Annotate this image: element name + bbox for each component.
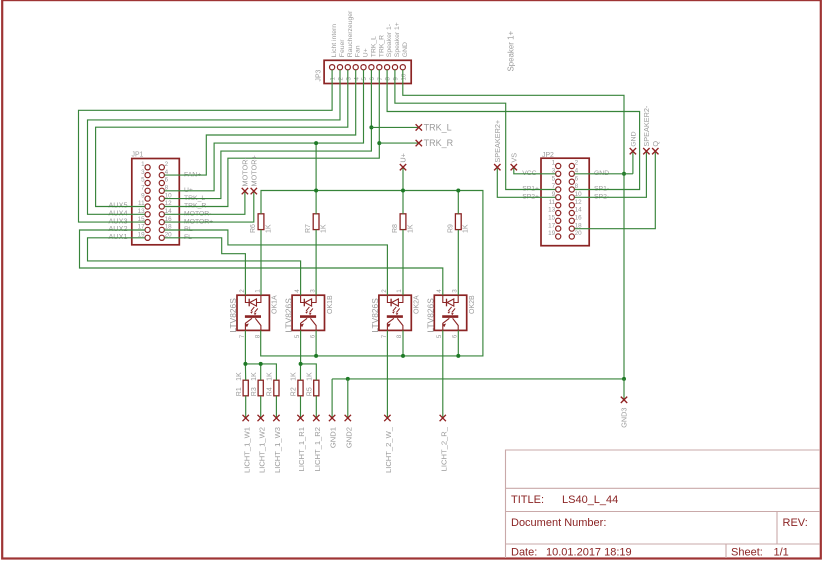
connector JP2 pin 20 pad bbox=[569, 234, 574, 239]
connector JP2 pin 12 pad bbox=[569, 203, 574, 208]
wire net AUX1 JP1.19 to OK1B.4 bbox=[88, 238, 301, 295]
svg-text:LICHT_2_W_: LICHT_2_W_ bbox=[384, 426, 393, 473]
svg-text:AUX1: AUX1 bbox=[108, 232, 127, 241]
node MOTOR+ (net stub X) bbox=[251, 188, 257, 194]
wire net GND stub GND2 bbox=[347, 379, 349, 418]
junction net U+ lower rail at OK1B.6 bbox=[314, 354, 318, 358]
wire net GND X drop bbox=[632, 151, 634, 174]
wire net U+ R7 stub bbox=[315, 191, 317, 214]
wire net U+ OK2B.6 stub bbox=[457, 330, 459, 356]
junction rail dot R3 bbox=[259, 362, 263, 366]
connector JP2 pin 7 pad bbox=[556, 187, 561, 192]
wire net LICHT_2_W OK2A.7 to X bbox=[386, 330, 388, 418]
svg-text:11: 11 bbox=[549, 199, 556, 206]
junction rail dot R2 bbox=[299, 362, 303, 366]
wire stub R3 top bbox=[260, 364, 262, 380]
wire net VS to JP2.3 VCC bbox=[514, 167, 556, 174]
node MOTOR- (net stub X) bbox=[242, 188, 248, 194]
connector JP1 pin 20 pad bbox=[159, 235, 164, 240]
connector JP1 pin 16 pad bbox=[159, 220, 164, 225]
node GND2 (net stub X) bbox=[345, 415, 351, 421]
node TRK_R (net stub X) bbox=[416, 140, 422, 146]
svg-text:GND1: GND1 bbox=[329, 427, 338, 448]
svg-text:TITLE:: TITLE: bbox=[511, 494, 544, 506]
wire net GND stub GND3 bbox=[623, 379, 625, 400]
svg-text:Licht intern: Licht intern bbox=[331, 24, 338, 57]
connector JP1 pin 18 pad bbox=[159, 227, 164, 232]
wire net U+ riser to resistor rail bbox=[315, 143, 317, 190]
wire net MOTOR+ JP1.16 to X bbox=[164, 191, 253, 222]
wire net U+ OK1B.6 stub bbox=[315, 330, 317, 356]
node Q (net stub X) bbox=[652, 148, 658, 154]
node TRK_L (net stub X) bbox=[416, 124, 422, 130]
connector JP2 pin 11 pad bbox=[556, 203, 561, 208]
svg-text:LICHT_1_R1: LICHT_1_R1 bbox=[297, 427, 306, 471]
node LICHT_1_R2 (net stub X) bbox=[313, 415, 319, 421]
svg-text:Raucherzeuger: Raucherzeuger bbox=[347, 10, 354, 57]
svg-text:4: 4 bbox=[436, 289, 443, 293]
connector JP1 pin 10 pad bbox=[159, 196, 164, 201]
svg-text:OK1A: OK1A bbox=[272, 295, 279, 314]
connector JP3 bbox=[324, 60, 411, 83]
svg-text:Fan: Fan bbox=[355, 45, 362, 57]
svg-text:1K: 1K bbox=[291, 372, 298, 381]
op-amp(optocoupler) OK1A LTV826S bbox=[237, 295, 269, 330]
junction net U+ rail at R9 bbox=[456, 189, 460, 193]
connector JP2 pin 10 pad bbox=[569, 195, 574, 200]
svg-text:6: 6 bbox=[369, 77, 376, 81]
wire stub R1 top bbox=[244, 364, 246, 380]
svg-text:1K: 1K bbox=[307, 372, 314, 381]
wire stub R8 to OK2A.1 bbox=[402, 230, 404, 296]
wire net LICHT_1_W3 R4 to X bbox=[275, 396, 277, 418]
wire net FEUER JP3.2 to JP1.13 AUX4 bbox=[88, 70, 341, 215]
node LICHT_2_W (net stub X) bbox=[384, 415, 390, 421]
svg-text:15: 15 bbox=[548, 215, 556, 222]
svg-text:R5: R5 bbox=[307, 387, 314, 396]
wire net U+ resistor rail bbox=[261, 191, 483, 356]
connector JP1 pin 7 pad bbox=[145, 188, 150, 193]
svg-text:R2: R2 bbox=[291, 387, 298, 396]
svg-text:TRK_R: TRK_R bbox=[424, 138, 454, 148]
connector JP1 pin 6 pad bbox=[159, 180, 164, 185]
connector JP3 pin 6 pad bbox=[369, 65, 374, 70]
connector JP3 pin 7 pad bbox=[377, 65, 382, 70]
wire net U+ R9 stub bbox=[457, 191, 459, 214]
connector JP1 pin 15 pad bbox=[145, 220, 150, 225]
svg-text:GND: GND bbox=[402, 42, 409, 57]
connector JP1 pin 19 pad bbox=[145, 235, 150, 240]
wire net FL JP1.20 to OK1A.2 bbox=[164, 238, 245, 295]
svg-text:3: 3 bbox=[309, 289, 316, 293]
connector JP2 pin 5 pad bbox=[556, 179, 561, 184]
wire net GND JP2.4 stub bbox=[574, 173, 633, 175]
connector JP1 pin 17 pad bbox=[145, 227, 150, 232]
resistor R7 bbox=[313, 214, 319, 230]
svg-text:20: 20 bbox=[575, 230, 583, 237]
junction net GND at JP2.4 branch bbox=[622, 172, 626, 176]
connector JP3 pin 3 pad bbox=[345, 65, 350, 70]
wire net OK1B.5 to R2/R5 rail bbox=[300, 330, 302, 364]
junction net U+ rail at R8 bbox=[401, 189, 405, 193]
svg-text:13: 13 bbox=[548, 207, 556, 214]
svg-text:LICHT_1_W1: LICHT_1_W1 bbox=[242, 427, 251, 473]
svg-text:7: 7 bbox=[239, 334, 246, 338]
svg-text:5: 5 bbox=[552, 175, 556, 182]
svg-text:2: 2 bbox=[338, 77, 345, 81]
wire net RAUCHERZEUGER JP3.3 to JP1.11 AUX5 bbox=[96, 70, 348, 207]
junction net U+ lower rail at OK2B.6 bbox=[456, 354, 460, 358]
junction rail dot R1 bbox=[243, 362, 247, 366]
svg-text:SPEAKER2+: SPEAKER2+ bbox=[493, 120, 502, 163]
svg-text:4: 4 bbox=[294, 289, 301, 293]
svg-text:R1: R1 bbox=[236, 387, 243, 396]
svg-text:Speaker 1+: Speaker 1+ bbox=[394, 22, 401, 57]
svg-text:R4: R4 bbox=[267, 387, 274, 396]
svg-text:16: 16 bbox=[575, 215, 583, 222]
svg-text:5: 5 bbox=[436, 334, 443, 338]
wire net SPEAKER2- to JP2.10 SP2- bbox=[574, 151, 646, 197]
resistor R2 bbox=[298, 380, 303, 396]
svg-text:JP3: JP3 bbox=[316, 69, 323, 81]
svg-text:5: 5 bbox=[141, 177, 145, 184]
connector JP1 pin 3 pad bbox=[145, 173, 150, 178]
connector JP1 pin 8 pad bbox=[159, 188, 164, 193]
junction net U+ rail at R7 bbox=[314, 189, 318, 193]
wire net U+ R8/X stub bbox=[402, 167, 404, 214]
svg-text:14: 14 bbox=[575, 207, 583, 214]
svg-text:1K: 1K bbox=[236, 372, 243, 381]
resistor R8 bbox=[400, 214, 406, 230]
svg-text:17: 17 bbox=[548, 222, 556, 229]
connector JP3 pin 10 pad bbox=[400, 65, 405, 70]
svg-text:1K: 1K bbox=[407, 224, 414, 233]
svg-text:R8: R8 bbox=[392, 224, 399, 233]
connector JP2 pin 18 pad bbox=[569, 226, 574, 231]
svg-text:GND2: GND2 bbox=[344, 427, 353, 448]
wire stub R7 to OK1B.3 bbox=[315, 230, 317, 296]
node GND1 (net stub X) bbox=[329, 415, 335, 421]
resistor R4 bbox=[274, 380, 279, 396]
wire net GND JP3.10 down right side bbox=[403, 70, 624, 379]
resistor R3 bbox=[258, 380, 263, 396]
wire net OK1A.7 to R1/R3/R4 rail bbox=[244, 330, 246, 364]
svg-text:19: 19 bbox=[548, 230, 556, 237]
svg-text:LTV826S: LTV826S bbox=[228, 298, 238, 333]
svg-text:7: 7 bbox=[141, 185, 145, 192]
svg-text:R3: R3 bbox=[251, 387, 258, 396]
svg-text:R9: R9 bbox=[447, 224, 454, 233]
wire net U+ OK2A.8 stub bbox=[402, 330, 404, 356]
svg-text:OK2B: OK2B bbox=[469, 295, 476, 314]
svg-text:6: 6 bbox=[309, 334, 316, 338]
junction net U+ at riser top bbox=[314, 141, 318, 145]
connector JP1 pin 2 pad bbox=[159, 165, 164, 170]
svg-text:6: 6 bbox=[165, 177, 169, 184]
op-amp(optocoupler) OK1B LTV826S bbox=[292, 295, 324, 330]
wire net LICHT_1_W1 R1 to X bbox=[245, 396, 247, 418]
wire net Q to JP2.18 bbox=[574, 151, 655, 229]
connector JP2 bbox=[541, 158, 589, 246]
svg-text:5: 5 bbox=[294, 334, 301, 338]
node U+ (net stub X) bbox=[400, 164, 406, 170]
junction net TRK_R branch bbox=[377, 141, 381, 145]
svg-text:1K: 1K bbox=[267, 372, 274, 381]
node LICHT_2_R (net stub X) bbox=[440, 415, 446, 421]
svg-text:1: 1 bbox=[330, 77, 337, 81]
svg-text:2: 2 bbox=[575, 160, 579, 167]
svg-text:Feuer: Feuer bbox=[339, 39, 346, 57]
svg-text:LICHT_1_W3: LICHT_1_W3 bbox=[273, 427, 282, 473]
wire rail R2 R5 bbox=[301, 364, 317, 380]
svg-text:LICHT_1_W2: LICHT_1_W2 bbox=[257, 427, 266, 473]
wire net GND stub GND1 bbox=[331, 379, 333, 418]
node LICHT_1_W1 (net stub X) bbox=[243, 415, 249, 421]
wire net RL JP1.18 to OK2A.2 bbox=[164, 230, 387, 295]
svg-text:2: 2 bbox=[381, 289, 388, 293]
wire net U+ JP3.5 to JP1.8 bbox=[164, 70, 363, 191]
node GND3 (net stub X) bbox=[621, 397, 627, 403]
connector JP2 pin 2 pad bbox=[569, 163, 574, 168]
svg-text:1/1: 1/1 bbox=[774, 547, 789, 559]
connector JP2 pin 19 pad bbox=[556, 234, 561, 239]
wire net SPEAKER1+ JP3.9 to JP2.7 bbox=[395, 70, 556, 190]
svg-text:OK1B: OK1B bbox=[327, 295, 334, 314]
resistor R9 bbox=[455, 214, 461, 230]
svg-text:1: 1 bbox=[396, 289, 403, 293]
svg-text:1K: 1K bbox=[251, 372, 258, 381]
connector JP2 pin 1 pad bbox=[556, 163, 561, 168]
svg-text:LTV826S: LTV826S bbox=[426, 298, 436, 333]
svg-text:GND3: GND3 bbox=[620, 408, 629, 428]
connector JP3 pin 8 pad bbox=[385, 65, 390, 70]
connector JP2 pin 3 pad bbox=[556, 171, 561, 176]
node SPEAKER2+ (net stub X) bbox=[494, 164, 500, 170]
svg-text:4: 4 bbox=[353, 77, 360, 81]
wire net LICHT_1_R1 R2 to X bbox=[300, 396, 302, 418]
junction net TRK_L branch bbox=[369, 125, 373, 129]
svg-text:LS40_L_44: LS40_L_44 bbox=[562, 494, 618, 506]
svg-text:1K: 1K bbox=[320, 224, 327, 233]
svg-text:MOTOR+: MOTOR+ bbox=[249, 155, 258, 186]
svg-text:JP1: JP1 bbox=[132, 151, 144, 158]
node LICHT_1_W2 (net stub X) bbox=[258, 415, 264, 421]
svg-text:TRK_L: TRK_L bbox=[370, 36, 377, 57]
svg-text:8: 8 bbox=[396, 334, 403, 338]
connector JP3 pin 5 pad bbox=[361, 65, 366, 70]
resistor R6 bbox=[258, 214, 264, 230]
svg-text:Q: Q bbox=[651, 141, 660, 147]
svg-text:JP2: JP2 bbox=[542, 152, 554, 159]
svg-text:SPEAKER2-: SPEAKER2- bbox=[642, 105, 651, 147]
svg-text:LTV826S: LTV826S bbox=[283, 298, 293, 333]
wire net TRK_L stub to X bbox=[371, 126, 418, 128]
svg-text:LICHT_2_R_: LICHT_2_R_ bbox=[439, 426, 448, 471]
connector JP3 pin 2 pad bbox=[337, 65, 342, 70]
wire net AUX2 JP1.17 to OK2B.4 bbox=[80, 230, 443, 295]
connector JP1 bbox=[132, 159, 180, 245]
svg-text:R7: R7 bbox=[305, 224, 312, 233]
svg-text:2: 2 bbox=[239, 289, 246, 293]
svg-text:3: 3 bbox=[452, 289, 459, 293]
svg-text:3: 3 bbox=[345, 77, 352, 81]
svg-text:U+: U+ bbox=[363, 48, 370, 57]
op-amp(optocoupler) OK2A LTV826S bbox=[379, 295, 411, 330]
connector JP1 pin 12 pad bbox=[159, 204, 164, 209]
svg-text:6: 6 bbox=[452, 334, 459, 338]
svg-text:1: 1 bbox=[141, 161, 145, 168]
wire net SPEAKER1- JP3.8 to JP2.8 bbox=[387, 70, 639, 190]
resistor R1 bbox=[243, 380, 248, 396]
svg-text:LTV826S: LTV826S bbox=[370, 298, 380, 333]
svg-text:TRK_R: TRK_R bbox=[378, 35, 385, 57]
connector JP1 pin 14 pad bbox=[159, 212, 164, 217]
svg-text:5: 5 bbox=[361, 77, 368, 81]
svg-text:1: 1 bbox=[552, 160, 556, 167]
svg-text:1: 1 bbox=[254, 289, 261, 293]
svg-text:VS: VS bbox=[509, 153, 518, 163]
connector JP2 pin 14 pad bbox=[569, 210, 574, 215]
connector JP2 pin 8 pad bbox=[569, 187, 574, 192]
svg-text:Sheet:: Sheet: bbox=[731, 547, 763, 559]
connector JP3 pin 9 pad bbox=[392, 65, 397, 70]
svg-text:OK2A: OK2A bbox=[414, 295, 421, 314]
connector JP1 pin 13 pad bbox=[145, 212, 150, 217]
svg-text:Document Number:: Document Number: bbox=[511, 517, 606, 529]
wire net GND bottom rail bbox=[332, 378, 624, 380]
resistor R5 bbox=[314, 380, 319, 396]
connector JP2 pin 16 pad bbox=[569, 218, 574, 223]
wire net SPEAKER2+ to JP2.9 SP2+ bbox=[497, 167, 555, 197]
wire net LICHT_1_R2 R5 to X bbox=[315, 396, 317, 418]
op-amp(optocoupler) OK2B LTV826S bbox=[434, 295, 466, 330]
connector JP1 pin 5 pad bbox=[145, 180, 150, 185]
svg-text:R6: R6 bbox=[250, 224, 257, 233]
wire net TRK_L JP3.6 to JP1.10 bbox=[164, 70, 371, 199]
wire stub R9 to OK2B.3 bbox=[457, 230, 459, 296]
junction net GND rail at GND2 bbox=[346, 377, 350, 381]
connector JP3 pin 1 pad bbox=[330, 65, 335, 70]
wire rail R1 R3 R4 bbox=[245, 364, 276, 380]
node GND (net stub X) bbox=[630, 148, 636, 154]
svg-text:12: 12 bbox=[575, 199, 583, 206]
connector JP1 pin 4 pad bbox=[159, 173, 164, 178]
connector JP2 pin 4 pad bbox=[569, 171, 574, 176]
connector JP2 pin 13 pad bbox=[556, 210, 561, 215]
connector JP2 pin 9 pad bbox=[556, 195, 561, 200]
svg-text:8: 8 bbox=[385, 77, 392, 81]
wire net MOTOR- JP1.14 to X bbox=[164, 191, 245, 214]
svg-text:9: 9 bbox=[141, 192, 145, 199]
connector JP3 pin 4 pad bbox=[353, 65, 358, 70]
svg-text:Speaker 1+: Speaker 1+ bbox=[507, 31, 516, 72]
svg-text:Speaker 1-: Speaker 1- bbox=[386, 24, 393, 57]
svg-text:MOTOR-: MOTOR- bbox=[241, 156, 250, 186]
connector JP2 pin 6 pad bbox=[569, 179, 574, 184]
svg-text:7: 7 bbox=[377, 77, 384, 81]
connector JP1 pin 9 pad bbox=[145, 196, 150, 201]
svg-text:10.01.2017 18:19: 10.01.2017 18:19 bbox=[546, 547, 632, 559]
node LICHT_1_W3 (net stub X) bbox=[273, 415, 279, 421]
connector JP2 pin 15 pad bbox=[556, 218, 561, 223]
svg-text:1K: 1K bbox=[265, 224, 272, 233]
svg-text:1K: 1K bbox=[463, 224, 470, 233]
svg-text:2: 2 bbox=[165, 161, 169, 168]
node SPEAKER2- (net stub X) bbox=[643, 148, 649, 154]
node LICHT_1_R1 (net stub X) bbox=[297, 415, 303, 421]
svg-text:3: 3 bbox=[141, 169, 145, 176]
wire net FAN+ JP3.4 to JP1.4 bbox=[164, 70, 355, 175]
connector JP2 pin 17 pad bbox=[556, 226, 561, 231]
connector JP1 pin 1 pad bbox=[145, 165, 150, 170]
svg-text:10: 10 bbox=[400, 73, 407, 81]
svg-text:GND: GND bbox=[631, 131, 638, 146]
wire stub R2 top bbox=[300, 364, 302, 380]
wire net LICHT-INTERN JP3.1 to JP1.15 AUX3 bbox=[79, 70, 333, 222]
node VS (net stub X) bbox=[511, 164, 517, 170]
svg-text:Date:: Date: bbox=[511, 547, 537, 559]
title block outline bbox=[506, 450, 821, 558]
connector JP1 pin 11 pad bbox=[145, 204, 150, 209]
wire net TRK_R JP3.7 to JP1.12 bbox=[164, 70, 379, 207]
svg-text:REV:: REV: bbox=[783, 517, 808, 529]
wire net LICHT_2_R OK2B.5 to X bbox=[442, 330, 444, 418]
svg-text:7: 7 bbox=[381, 334, 388, 338]
svg-text:TRK_L: TRK_L bbox=[424, 122, 452, 132]
wire net TRK_R stub to X bbox=[379, 142, 419, 144]
wire stub R6 to OK1A.1 bbox=[260, 230, 262, 296]
svg-text:6: 6 bbox=[575, 175, 579, 182]
svg-text:U+: U+ bbox=[399, 153, 408, 163]
svg-text:LICHT_1_R2: LICHT_1_R2 bbox=[313, 427, 322, 471]
junction net GND rail at GND3 bbox=[622, 377, 626, 381]
wire net LICHT_1_W2 R3 to X bbox=[260, 396, 262, 418]
junction net U+ lower rail at OK2A.8 bbox=[401, 354, 405, 358]
svg-text:9: 9 bbox=[393, 77, 400, 81]
